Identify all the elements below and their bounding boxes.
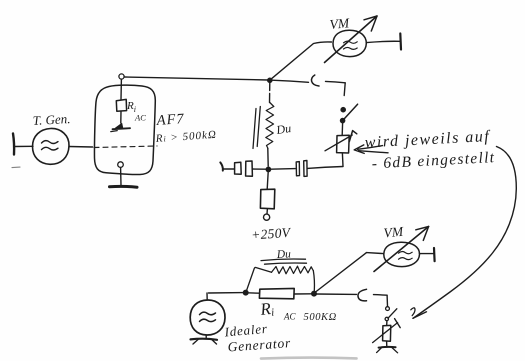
capacitor C1	[235, 162, 242, 174]
label Idealer Generator	[223, 321, 292, 355]
inductor Du2 (horizontal coil)	[246, 266, 314, 291]
generator G2	[190, 300, 225, 335]
wire cap rail right segment	[307, 167, 343, 169]
svg-text:Du: Du	[274, 121, 291, 137]
label Ri (bottom)	[258, 299, 336, 323]
label wird jeweils auf	[364, 128, 491, 152]
node terminal (bottom right)	[433, 248, 436, 261]
wire hook to corner	[326, 81, 346, 82]
ground (tube cathode)	[110, 185, 138, 189]
potentiometer P1	[325, 131, 357, 153]
wire generator to tube	[69, 146, 93, 149]
capacitor C3	[296, 161, 307, 177]
svg-text:AC: AC	[134, 113, 146, 123]
ground (P2)	[377, 341, 398, 353]
wire anode lead	[120, 79, 122, 99]
svg-text:Generator: Generator	[227, 335, 291, 354]
svg-text:VM: VM	[329, 15, 350, 32]
wire grid dashed (inside tube)	[94, 146, 157, 148]
wire box to plate	[120, 111, 122, 123]
label Ri AC internal	[126, 100, 146, 123]
wire VM2 to terminal	[420, 253, 434, 255]
wire cathode lead	[120, 168, 122, 186]
node terminal (top right)	[399, 34, 402, 50]
inductor Du2 core lines	[261, 259, 307, 264]
wire corner down to switch S2	[386, 295, 388, 306]
node input terminal left	[13, 134, 14, 155]
label Ri > 500kOhm	[154, 129, 217, 145]
capacitor C2	[246, 161, 253, 176]
label AF7	[155, 111, 185, 129]
wire G2 to junction C	[209, 292, 244, 294]
svg-text:Ri > 500kΩ: Ri > 500kΩ	[154, 129, 217, 145]
wire	[224, 168, 235, 170]
label +250V	[251, 225, 293, 243]
label -6dB eingestellt	[371, 149, 495, 172]
node junction A	[268, 78, 272, 82]
svg-text:T. Gen.: T. Gen.	[32, 111, 70, 128]
node junction D	[312, 291, 317, 296]
wire G2 bottom stub	[205, 335, 207, 338]
wire	[266, 209, 268, 214]
wire corner down to switch	[344, 83, 345, 96]
resistor Ri internal box	[116, 99, 126, 111]
wire switch to potentiometer	[341, 123, 343, 135]
wire	[252, 168, 266, 170]
voltmeter VM1	[325, 16, 378, 63]
wire VM1 to terminal	[367, 41, 400, 42]
node cathode terminal circle	[118, 162, 124, 168]
svg-text:VM: VM	[383, 224, 404, 241]
wire diagonal junction D to VM2	[316, 253, 367, 292]
wire potentiometer down to cap rail	[341, 153, 344, 166]
wire top rail	[124, 77, 268, 80]
wire junction C to resistor	[248, 292, 259, 294]
svg-text:AF7: AF7	[155, 111, 185, 129]
stray dash	[12, 166, 20, 169]
svg-text:- 6dB eingestellt: - 6dB eingestellt	[371, 149, 495, 172]
node +250V terminal circle	[264, 214, 270, 220]
svg-text:AC: AC	[283, 312, 296, 322]
connector hook (bottom)	[358, 289, 367, 301]
label Du (bottom choke)	[276, 248, 292, 261]
plate symbol	[111, 123, 130, 131]
label Du (top choke)	[274, 121, 291, 137]
tube AF7 envelope	[94, 85, 155, 174]
node junction B	[266, 167, 270, 171]
wire G2 top stub	[206, 293, 208, 300]
annotation arrow to P1	[354, 145, 388, 154]
potentiometer P2	[373, 319, 401, 343]
label T.Gen.	[32, 111, 70, 128]
node junction C	[243, 290, 248, 295]
wire diagonal to voltmeter VM1	[270, 42, 331, 80]
generator T.Gen	[33, 128, 70, 164]
wire junction D to hook	[316, 293, 356, 295]
wire	[271, 168, 296, 171]
inductor Du (vertical coil)	[266, 82, 274, 167]
svg-text:Ri: Ri	[258, 299, 274, 320]
switch S1	[341, 104, 358, 123]
wire junction B down to R	[267, 172, 268, 189]
resistor R (supply dropper)	[260, 189, 274, 209]
wire resistor to junction D	[294, 293, 312, 295]
inductor core lines	[253, 107, 260, 149]
voltmeter VM2	[374, 227, 429, 272]
ground (G2)	[191, 339, 218, 344]
annotation big curved arrow	[411, 147, 517, 319]
node anode terminal circle	[119, 74, 124, 79]
svg-text:+250V: +250V	[251, 225, 293, 243]
connector hook	[311, 75, 319, 86]
scan artifact grey bar	[261, 358, 357, 359]
svg-text:500KΩ: 500KΩ	[304, 312, 337, 323]
resistor Ri AC 500k	[259, 288, 294, 298]
svg-text:wird jeweils auf: wird jeweils auf	[364, 128, 491, 152]
node cap rail left terminal	[220, 162, 223, 170]
label VM (bottom)	[383, 224, 404, 241]
wire	[15, 145, 34, 147]
switch S2	[385, 307, 397, 321]
wire junction to hook	[272, 80, 309, 82]
wire switch to potentiometer P2	[386, 321, 388, 326]
wire hook to corner	[374, 294, 388, 297]
wire VM2 left stub	[367, 253, 384, 254]
label VM (top)	[329, 15, 350, 32]
